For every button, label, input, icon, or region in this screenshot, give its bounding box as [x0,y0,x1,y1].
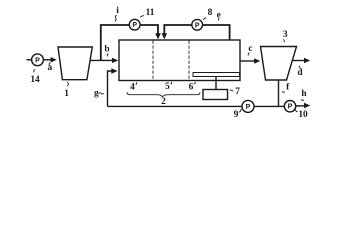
label 10 tilde [295,109,297,112]
svg-text:4: 4 [130,83,135,93]
turbine 3 [261,47,297,81]
svg-text:a: a [47,63,52,73]
label 6 tick [194,82,195,84]
label d tilde [299,66,300,69]
wire from pump 11 down into box [140,25,158,36]
pump P14 [32,54,44,66]
wire c [240,60,255,62]
label 4 tick [136,82,137,84]
stem to heater 7 [215,77,217,90]
svg-text:e: e [217,10,221,20]
svg-text:7: 7 [235,87,240,97]
label 8 tilde [203,18,206,20]
svg-text:P: P [132,22,137,29]
svg-text:3: 3 [283,30,288,40]
wire a inlet stub [27,59,32,61]
svg-text:9: 9 [234,110,239,120]
svg-text:8: 8 [208,8,213,18]
brace under 4 5 6 [127,92,200,97]
bottom wire to pump 9 [108,105,243,107]
label e tilde [217,18,220,20]
label i tilde [115,15,117,21]
heater 7 [203,90,228,100]
wire i riser to pump 11 [101,25,130,60]
pump P11 [129,19,140,30]
bottom wire pump 9 to pump 10 [254,105,284,107]
label 3 tilde [283,39,284,42]
svg-text:P: P [35,57,40,64]
label c tilde [248,53,249,56]
svg-text:5: 5 [165,82,170,92]
label 7 tilde [230,90,234,91]
label 9 tilde [239,109,242,112]
svg-text:1: 1 [64,89,69,99]
label b tilde [107,54,108,57]
tray bar in section 6 [193,73,240,77]
label h tilde [301,99,304,102]
label 1 leader [67,82,68,86]
svg-text:g: g [94,88,99,98]
divider 4/5 [152,41,154,81]
pump P8 [192,19,203,30]
svg-text:6: 6 [189,82,194,92]
svg-text:P: P [195,22,200,29]
label f tilde [282,91,285,94]
wire e loop from box top to pump 8 [164,25,192,36]
wire e drop [203,25,230,40]
label a tilde [49,63,50,66]
svg-text:P: P [288,104,293,111]
svg-text:d: d [297,68,303,78]
vessel 2 [119,40,240,81]
wire f [278,80,280,106]
svg-text:b: b [104,45,109,55]
divider 5/6 [188,41,190,81]
wire b [90,59,113,61]
svg-text:P: P [246,104,251,111]
label 14 [34,69,35,72]
wire a [43,59,51,61]
svg-text:2: 2 [161,97,166,107]
wire g loop [108,71,112,106]
pump P10 [284,101,295,112]
wire h outlet [296,105,305,107]
svg-text:11: 11 [146,8,155,18]
svg-text:h: h [301,89,307,99]
svg-text:i: i [116,6,119,16]
svg-text:10: 10 [298,110,308,120]
wire d [293,60,305,62]
label 11 tilde [140,16,144,18]
pump P9 [242,100,254,112]
svg-text:c: c [248,44,252,54]
compressor 1 [58,47,92,80]
label g tilde [99,93,105,94]
label 5 tick [171,82,172,84]
svg-text:14: 14 [30,75,40,85]
numeral labels [30,6,308,120]
